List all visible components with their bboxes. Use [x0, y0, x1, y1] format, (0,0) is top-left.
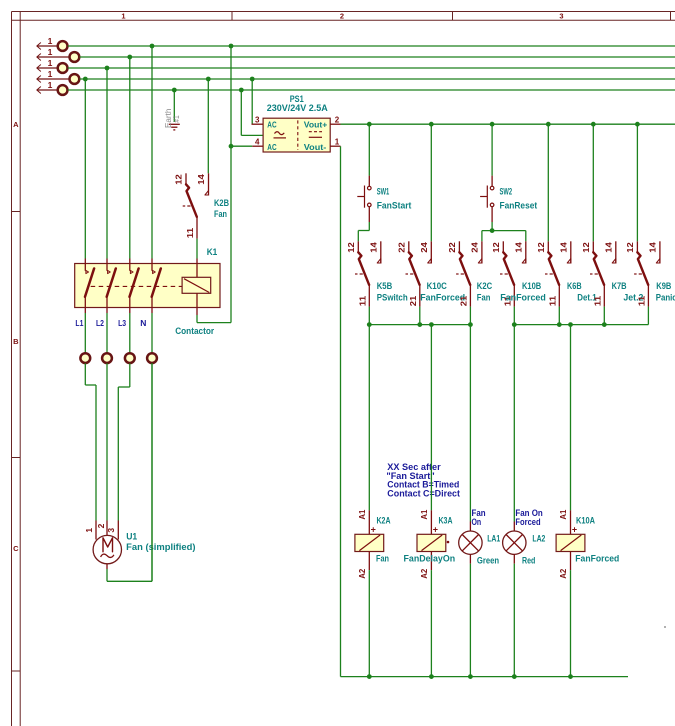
svg-text:FanForced: FanForced: [575, 554, 619, 564]
svg-text:Vout-: Vout-: [304, 142, 327, 152]
svg-text:A2: A2: [559, 568, 568, 579]
svg-text:Fan: Fan: [477, 292, 491, 302]
svg-text:Red: Red: [522, 556, 535, 566]
svg-text:L2: L2: [96, 318, 104, 328]
svg-text:+: +: [433, 524, 438, 534]
svg-text:B: B: [13, 337, 19, 346]
svg-text:24: 24: [470, 242, 480, 253]
svg-text:3: 3: [106, 528, 116, 533]
svg-text:K3A: K3A: [439, 516, 453, 526]
svg-text:3: 3: [255, 115, 260, 124]
svg-text:SW2: SW2: [500, 187, 513, 197]
svg-text:24: 24: [419, 242, 429, 253]
svg-text:21: 21: [458, 295, 468, 306]
svg-text:FanDelayOn: FanDelayOn: [404, 554, 456, 564]
svg-text:K6B: K6B: [567, 281, 582, 291]
svg-text:K2C: K2C: [477, 281, 493, 291]
svg-text:K7B: K7B: [612, 281, 627, 291]
svg-text:Fan (simplified): Fan (simplified): [126, 542, 195, 552]
svg-text:2: 2: [335, 115, 340, 124]
svg-text:1: 1: [48, 80, 53, 90]
svg-text:PSwitch: PSwitch: [377, 292, 408, 302]
svg-text:L3: L3: [118, 318, 126, 328]
svg-text:22: 22: [397, 242, 407, 253]
svg-text:14: 14: [196, 174, 206, 185]
svg-text:12: 12: [625, 242, 635, 253]
svg-text:K1: K1: [207, 247, 218, 257]
svg-text:FanReset: FanReset: [500, 200, 538, 210]
svg-text:1: 1: [121, 11, 125, 20]
svg-text:N: N: [140, 318, 146, 328]
svg-text:K10C: K10C: [427, 281, 448, 291]
svg-text:LA2: LA2: [532, 533, 545, 543]
svg-text:14: 14: [514, 242, 524, 253]
svg-text:2: 2: [96, 523, 106, 528]
svg-text:C: C: [13, 544, 19, 553]
svg-text:12: 12: [581, 242, 591, 253]
svg-text:FanStart: FanStart: [377, 200, 412, 210]
svg-text:Contactor: Contactor: [175, 326, 214, 336]
svg-text:2: 2: [340, 11, 344, 20]
svg-text:1: 1: [84, 528, 94, 533]
svg-text:On: On: [472, 517, 482, 527]
svg-text:3: 3: [559, 11, 563, 20]
svg-text:A1: A1: [559, 509, 568, 520]
svg-text:Fan: Fan: [376, 554, 389, 564]
svg-text:11: 11: [592, 295, 602, 306]
svg-text:11: 11: [547, 295, 557, 306]
svg-text:1: 1: [48, 69, 53, 79]
svg-text:Vout+: Vout+: [304, 120, 328, 130]
svg-text:4: 4: [255, 138, 260, 147]
svg-text:+: +: [371, 524, 376, 534]
svg-text:1: 1: [48, 36, 53, 46]
svg-text:FanForced: FanForced: [500, 292, 546, 302]
svg-text:14: 14: [648, 242, 658, 253]
svg-text:14: 14: [604, 242, 614, 253]
svg-text:AC: AC: [267, 142, 276, 152]
svg-text:12: 12: [536, 242, 546, 253]
svg-text:U1: U1: [126, 531, 137, 541]
svg-text:K10B: K10B: [522, 281, 542, 291]
svg-text:230V/24V 2.5A: 230V/24V 2.5A: [267, 103, 328, 113]
svg-text:1: 1: [48, 47, 53, 57]
svg-text:A1: A1: [358, 509, 367, 520]
svg-text:K2B: K2B: [214, 198, 229, 208]
svg-text:K2A: K2A: [377, 516, 391, 526]
svg-text:#1: #1: [172, 115, 181, 123]
svg-text:A2: A2: [420, 568, 429, 579]
svg-text:AC: AC: [267, 120, 276, 130]
svg-text:LA1: LA1: [487, 533, 500, 543]
svg-text:K9B: K9B: [656, 281, 671, 291]
svg-text:K5B: K5B: [377, 281, 393, 291]
svg-text:11: 11: [185, 227, 195, 238]
svg-text:14: 14: [559, 242, 569, 253]
svg-text:Panic: Panic: [656, 292, 675, 302]
svg-text:1: 1: [48, 58, 53, 68]
svg-text:Contact C=Direct: Contact C=Direct: [387, 488, 460, 498]
svg-text:+: +: [572, 524, 577, 534]
svg-text:SW1: SW1: [377, 187, 390, 197]
svg-text:A: A: [13, 120, 19, 129]
svg-text:A1: A1: [420, 509, 429, 520]
svg-text:A2: A2: [358, 568, 367, 579]
svg-text:12: 12: [491, 242, 501, 253]
svg-text:1: 1: [335, 138, 340, 147]
svg-text:K10A: K10A: [576, 516, 595, 526]
svg-text:L1: L1: [75, 318, 83, 328]
svg-text:11: 11: [636, 295, 646, 306]
svg-text:Fan: Fan: [214, 209, 227, 219]
svg-text:11: 11: [357, 295, 367, 306]
svg-text:Forced: Forced: [515, 517, 540, 527]
svg-text:22: 22: [447, 242, 457, 253]
svg-text:12: 12: [174, 174, 184, 185]
svg-text:14: 14: [369, 242, 379, 253]
svg-text:12: 12: [346, 242, 356, 253]
svg-text:21: 21: [408, 295, 418, 306]
svg-text:Green: Green: [477, 556, 499, 566]
